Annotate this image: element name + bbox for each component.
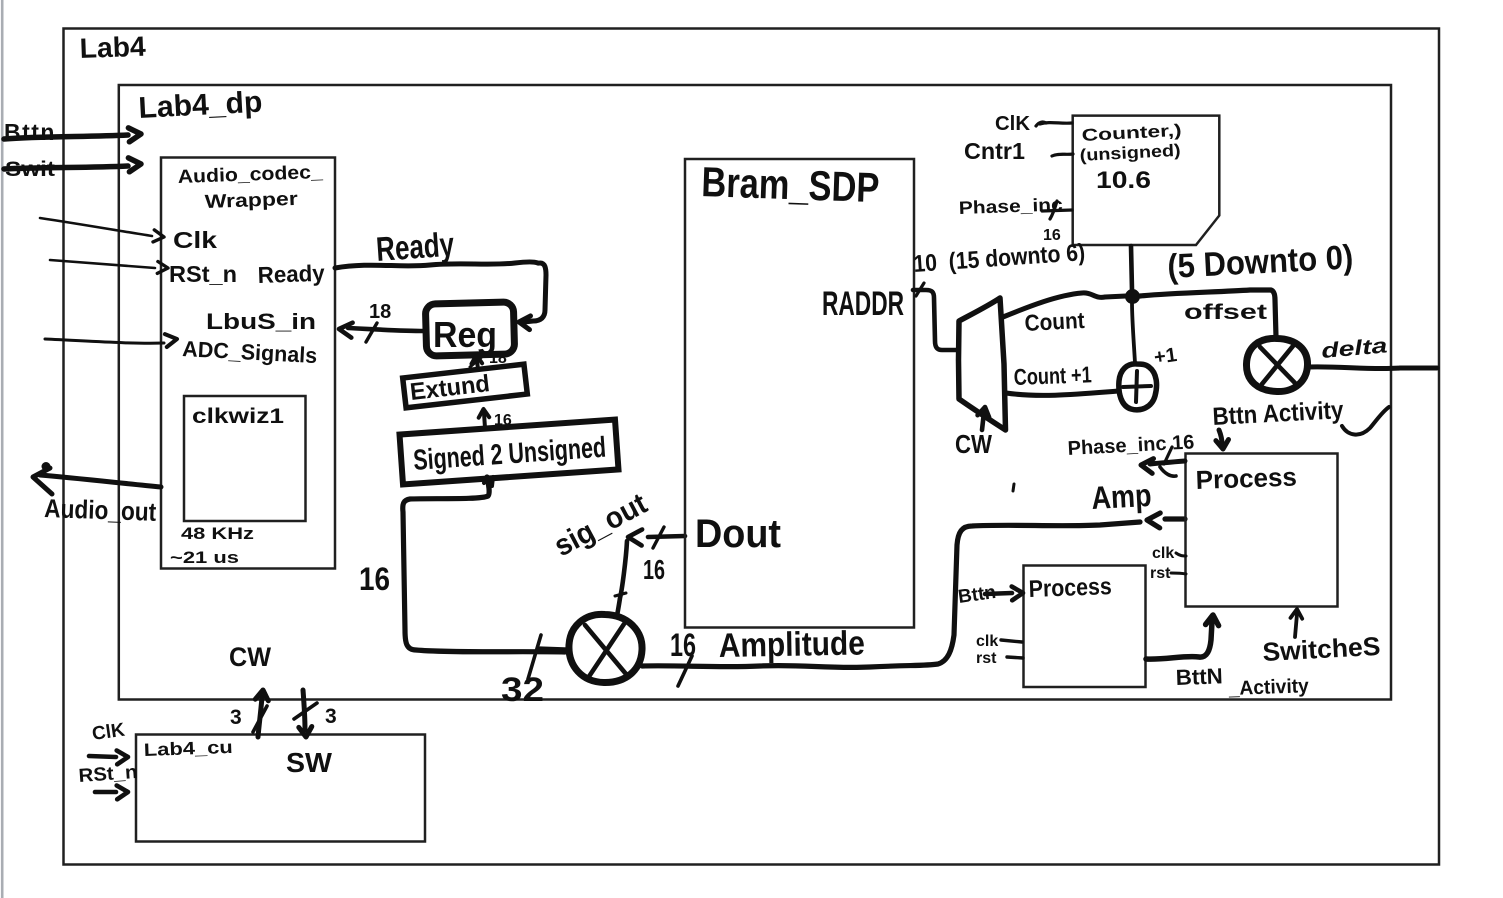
svg-text:LbuS_in: LbuS_in: [206, 309, 316, 334]
block Audio_codec_wrapper: [161, 158, 335, 569]
bus slash 18 (Reg output): [366, 323, 377, 342]
pin label Rst_n: [169, 261, 237, 287]
label Amp: [1090, 477, 1152, 516]
wire sig_out vertical: [615, 541, 627, 616]
svg-text:ClK: ClK: [91, 720, 127, 745]
wire Switches up arrow: [1291, 609, 1303, 637]
label 18 (Reg output): [369, 301, 391, 323]
label Audio_out: [44, 493, 157, 527]
svg-text:3: 3: [325, 705, 337, 728]
multiplier X1 (amplitude): [569, 614, 642, 682]
wire Signed2Unsigned to Extend arrow: [479, 409, 490, 428]
svg-text:offset: offset: [1184, 301, 1267, 324]
wire BttN_Activity up arrow: [1146, 615, 1219, 659]
page left margin line: [1, 0, 4, 898]
label Phase_inc 16: [1067, 431, 1195, 460]
label offset: [1184, 301, 1267, 324]
tiny stray mark: [1013, 484, 1014, 491]
svg-text:10 (15 downto 6): 10 (15 downto 6): [913, 239, 1086, 278]
label CW (cu output): [229, 642, 271, 672]
label 3 (CW): [230, 706, 242, 729]
wire rst_n input arrow: [50, 260, 168, 273]
wire mux output to RADDR: [913, 283, 957, 350]
svg-text:Count: Count: [1024, 307, 1086, 336]
svg-text:32: 32: [501, 671, 544, 709]
pin label Cntrl: [964, 138, 1025, 164]
svg-text:delta: delta: [1320, 334, 1388, 363]
svg-text:(unsigned): (unsigned): [1079, 141, 1181, 165]
svg-text:Phase_inc 16: Phase_inc 16: [1067, 431, 1195, 460]
register Reg: [425, 302, 514, 356]
label Ready (net): [375, 226, 456, 269]
svg-text:16: 16: [643, 554, 665, 585]
label Bram_SDP: [701, 158, 881, 211]
wire clk to counter: [1036, 122, 1072, 126]
svg-text:Ready: Ready: [257, 260, 325, 288]
pin tick clk (small process): [1001, 640, 1022, 642]
label Switches: [1262, 631, 1381, 667]
label Extend: [409, 370, 492, 406]
wire Count (node to mux): [1003, 293, 1126, 317]
wire adc input arrow: [45, 334, 177, 347]
node junction dot: [1125, 289, 1140, 304]
label 18 (Extend output): [489, 350, 507, 367]
block Extend: [403, 364, 528, 408]
pin tick rst (big process): [1171, 573, 1186, 574]
inner block Lab4_dp: [119, 85, 1391, 700]
svg-text:Reg: Reg: [433, 314, 497, 355]
svg-text:Amplitude: Amplitude: [718, 624, 865, 665]
label Rst_n (cu): [78, 762, 138, 787]
svg-text:CW: CW: [955, 429, 992, 459]
svg-text:rst: rst: [976, 650, 997, 667]
label Switches input: [5, 158, 55, 181]
label Bttn: [4, 119, 56, 145]
label 16 (phase_inc): [1043, 227, 1061, 244]
svg-text:rst: rst: [1150, 565, 1171, 582]
label 16 (Dout): [643, 554, 665, 585]
label Lab4_dp: [138, 86, 264, 125]
label Process (small): [1028, 573, 1112, 603]
block Lab4_cu: [136, 735, 425, 842]
label Reg: [433, 314, 497, 355]
wire Bttn arrow into small process: [985, 587, 1023, 601]
label Counter (unsigned) 10.6: [1079, 121, 1182, 194]
wire node to offset corner: [1140, 290, 1276, 337]
svg-text:clkwiz1: clkwiz1: [192, 405, 284, 428]
wire Bttn input arrow: [4, 128, 141, 142]
wire Dout to sig_out arrow: [628, 530, 685, 546]
label Bttn Activity: [1212, 396, 1389, 434]
wire Count+1 (adder to mux): [1006, 391, 1119, 395]
svg-text:Clk: Clk: [173, 227, 217, 253]
label ~21 us: [170, 548, 239, 567]
label Count: [1024, 307, 1086, 336]
wire counter output down: [1131, 246, 1132, 290]
label 48 KHz: [181, 524, 254, 543]
svg-text:RSt_n: RSt_n: [169, 261, 237, 287]
label 10 (15 downto 6): [913, 239, 1086, 278]
wire SW down arrow: [299, 690, 312, 737]
pin tick clk (big process): [1176, 553, 1186, 556]
pin label clk (big process): [1152, 545, 1174, 562]
svg-text:RSt_n: RSt_n: [78, 762, 138, 787]
svg-text:Amp: Amp: [1090, 477, 1152, 516]
wire Phase_inc output arrow: [1141, 459, 1185, 477]
wire rst arrow (cu): [95, 786, 128, 800]
pin label Phase_inc (counter): [958, 194, 1063, 218]
label Lab4_cu: [143, 737, 233, 760]
label SW: [286, 747, 333, 778]
svg-text:clk: clk: [1152, 545, 1174, 562]
svg-text:~21 us: ~21 us: [170, 548, 239, 567]
svg-text:16: 16: [670, 627, 696, 663]
svg-text:Bttn Activity: Bttn Activity: [1212, 396, 1344, 431]
wire multiplier output (left stub): [540, 649, 568, 650]
mux CW (trapezoid): [959, 298, 1006, 430]
label 16 (Extend input): [494, 412, 512, 429]
svg-text:Dout: Dout: [695, 512, 781, 556]
label Count +1: [1013, 361, 1092, 390]
label CW (mux select): [955, 429, 992, 459]
pin label clk (small process): [976, 633, 998, 650]
wire phase_inc to counter: [1042, 201, 1072, 219]
wire cntrl to counter: [1052, 154, 1073, 156]
wire node to adder: [1132, 303, 1135, 363]
label clkwiz1: [192, 405, 284, 428]
svg-text:ADC_Signals: ADC_Signals: [182, 336, 318, 368]
svg-text:Lab4: Lab4: [79, 31, 146, 64]
svg-text:Phase_inc: Phase_inc: [958, 194, 1063, 218]
label Amplitude: [718, 624, 865, 665]
svg-text:48 KHz: 48 KHz: [181, 524, 254, 543]
bus slash (phase_inc 16): [1164, 447, 1172, 464]
svg-text:16: 16: [359, 561, 390, 597]
svg-text:clk: clk: [976, 633, 998, 650]
pin label Clk (counter): [995, 113, 1031, 135]
wire CW up arrow: [255, 690, 268, 737]
svg-text:10.6: 10.6: [1096, 167, 1151, 194]
bus slash 32: [528, 635, 541, 679]
pin label Ready: [257, 260, 325, 288]
label delta: [1320, 334, 1388, 363]
svg-text:Audio_out: Audio_out: [44, 493, 157, 527]
wire delta output: [1308, 367, 1437, 369]
pin label rst (small process): [976, 650, 997, 667]
bus slash 3 (CW): [253, 706, 267, 732]
label BttN_Activity: [1175, 663, 1310, 700]
svg-text:Lab4_cu: Lab4_cu: [143, 737, 233, 760]
label 16 (vertical wire): [359, 561, 390, 597]
svg-text:BttN: BttN: [1175, 663, 1223, 690]
svg-text:CW: CW: [229, 642, 271, 672]
block Signed2Unsigned: [400, 420, 619, 485]
adder +1 (circle): [1119, 364, 1157, 410]
label Bttn (small process input): [957, 582, 998, 608]
svg-text:_Activity: _Activity: [1227, 675, 1310, 700]
label Lab4: [79, 31, 146, 64]
wire Ready: [335, 262, 546, 330]
svg-text:Cntr1: Cntr1: [964, 138, 1025, 164]
svg-text:Audio_codec_: Audio_codec_: [177, 162, 323, 188]
wire CW select arrow into mux: [978, 407, 990, 430]
svg-text:Process: Process: [1028, 573, 1112, 603]
wire Audio_out arrow: [33, 462, 161, 494]
wire Extend to Reg arrow: [470, 355, 484, 370]
block Process (button processing): [1186, 454, 1338, 607]
multiplier X2 (offset x delta): [1246, 338, 1307, 391]
svg-text:Ready: Ready: [375, 226, 456, 269]
svg-text:Lab4_dp: Lab4_dp: [138, 86, 264, 125]
svg-text:RADDR: RADDR: [822, 285, 904, 323]
pin label Dout: [695, 512, 781, 556]
label +1: [1153, 344, 1179, 369]
svg-text:Process: Process: [1195, 461, 1297, 495]
pin tick rst (small process): [1007, 657, 1023, 658]
svg-text:SW: SW: [286, 747, 333, 778]
label 16 (Amplitude): [670, 627, 696, 663]
svg-text:SwitcheS: SwitcheS: [1262, 631, 1381, 667]
pin label Lbus_in: [206, 309, 316, 334]
bus slash 16 (Amplitude): [678, 656, 692, 686]
label Signed2Unsigned: [412, 432, 607, 477]
svg-text:+1: +1: [1153, 344, 1179, 369]
svg-text:sig_out: sig_out: [549, 487, 653, 563]
wire Switches input arrow: [4, 158, 141, 172]
counter U_counter (notched box): [1073, 116, 1220, 245]
wire clk input arrow: [40, 218, 164, 242]
svg-text:18: 18: [369, 301, 391, 323]
label sig_out: [549, 487, 653, 563]
block clkwiz1: [184, 396, 306, 521]
wire Bttn Activity down arrow: [1216, 430, 1229, 449]
pin label rst (big process): [1150, 565, 1171, 582]
pin label ADC_signals: [182, 336, 318, 368]
bus slash 3 (SW): [294, 703, 317, 719]
label (5 Downto 0): [1166, 238, 1354, 286]
svg-text:Count +1: Count +1: [1013, 361, 1092, 390]
block Process (switch processing): [1024, 566, 1146, 688]
label 3 (SW): [325, 705, 337, 728]
label Process (big): [1195, 461, 1297, 495]
wire Amplitude: [642, 513, 1185, 667]
bus slash 16 (Dout): [653, 527, 664, 548]
pin label RADDR: [822, 285, 904, 323]
svg-text:Bram_SDP: Bram_SDP: [701, 158, 881, 211]
svg-text:ClK: ClK: [995, 113, 1031, 135]
svg-text:3: 3: [230, 706, 242, 729]
label Audio_codec_wrapper: [177, 162, 323, 213]
wire clk arrow (cu): [89, 751, 128, 765]
label Clk (cu): [91, 720, 127, 745]
adder plus sign: [1123, 371, 1151, 402]
wire Reg to Lbus_in arrow: [339, 323, 424, 338]
block Bram_SDP: [685, 159, 914, 628]
pin label Clk: [173, 227, 217, 253]
label 32: [501, 671, 544, 709]
wire Signed2Unsigned output to multiplier: [403, 477, 565, 652]
svg-text:Wrapper: Wrapper: [204, 189, 298, 213]
